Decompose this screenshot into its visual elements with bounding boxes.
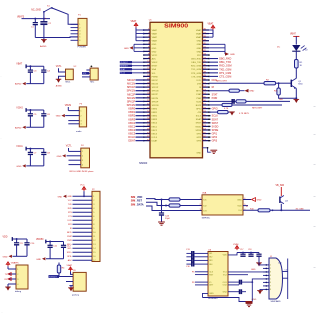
svg-text:SPK2N: SPK2N: [127, 103, 136, 107]
ground at P5: [5, 284, 11, 291]
wire cap bank bottom rail: [26, 83, 44, 85]
wire U1 right pin 46 with label: [209, 65, 232, 68]
svg-text:PWR: PWR: [212, 97, 218, 100]
svg-text:SPK1P: SPK1P: [127, 85, 136, 89]
svg-text:MIC1N: MIC1N: [127, 82, 135, 86]
IC U1 title SIM900: [139, 20, 188, 166]
resistor R9: [169, 204, 180, 207]
svg-text:DBG_RXD: DBG_RXD: [219, 58, 231, 61]
wire U6 VDD to VCC node: [228, 252, 259, 255]
svg-text:NRST: NRST: [152, 66, 158, 68]
svg-text:KBR1: KBR1: [152, 112, 158, 114]
wire U1 left pin 18 with label: [127, 89, 144, 93]
label U1 right pin 58: [212, 108, 218, 111]
label U1 right pin 65: [212, 133, 218, 136]
net label VDDEXT: [120, 61, 144, 64]
ground bars right of U1 bottom: [210, 150, 217, 153]
wire U1 left pin 25 with label: [128, 114, 143, 118]
svg-text:SRST: SRST: [196, 123, 202, 125]
label U1 right pin 62: [212, 122, 219, 125]
capacitor C16 coupling: [186, 262, 208, 267]
label P2 pin 16 SPK-: [67, 256, 72, 258]
wire cap bank bottom rail: [13, 255, 28, 257]
wire U6 GN2 through cap: [228, 289, 246, 294]
svg-text:SPK2N: SPK2N: [152, 105, 159, 107]
SIM card holder J1: [269, 256, 288, 303]
svg-text:PWRK: PWRK: [152, 76, 159, 78]
svg-text:SIM: SIM: [131, 196, 135, 199]
svg-text:RF3 & GND IN RF plane: RF3 & GND IN RF plane: [70, 171, 95, 173]
capacitor C19: [256, 253, 261, 263]
svg-text:NC_GND: NC_GND: [31, 10, 41, 12]
capacitor C3: [28, 66, 37, 83]
net label SIM_DATA: [131, 203, 144, 206]
capacitor C10: [24, 239, 35, 256]
svg-text:GND: GND: [36, 259, 41, 261]
svg-text:PWRKEY: PWRKEY: [49, 276, 58, 278]
svg-text:GND: GND: [56, 116, 61, 118]
svg-text:SCLK: SCLK: [196, 116, 202, 118]
svg-text:VCHG: VCHG: [16, 107, 23, 109]
wire VBAT bus right pins: [209, 30, 213, 37]
svg-text:SIM900: SIM900: [139, 162, 148, 165]
svg-text:DCLK: DCLK: [128, 135, 135, 139]
wire P2 pin 13: [73, 244, 97, 246]
ground AGND: [15, 126, 26, 130]
component U3: [90, 66, 98, 84]
svg-text:DBG_TXD: DBG_TXD: [219, 61, 231, 64]
wire U1 left pin 17 with label: [127, 85, 144, 89]
svg-text:NETLIGHT: NETLIGHT: [252, 107, 263, 109]
wire P3 pin3: [68, 120, 79, 122]
svg-text:KBC3: KBC3: [128, 132, 135, 136]
svg-text:VCTL: VCTL: [66, 145, 73, 147]
ground GND at P3: [56, 114, 65, 118]
svg-text:~: ~: [313, 162, 316, 167]
ground at Q1 emitter: [294, 98, 300, 103]
net label at U3 pin2: [82, 72, 90, 75]
wire cap bank bottom rail: [26, 165, 44, 167]
resistor R5: [236, 100, 246, 103]
svg-text:VDDX: VDDX: [152, 62, 158, 64]
wire P4 pin3: [69, 159, 81, 161]
svg-text:RXD_GSM: RXD_GSM: [219, 65, 231, 68]
label 4.7K: [224, 108, 229, 110]
IC U6 audio/SIM interface: [208, 250, 228, 301]
svg-text:PWR: PWR: [67, 240, 72, 242]
label audio in caps: [186, 249, 191, 268]
wire P2 pin 7: [73, 220, 96, 222]
IC U1 SIM900 body: [150, 22, 203, 158]
svg-text:C17: C17: [240, 249, 243, 251]
wire STATUS line 1: [209, 100, 236, 102]
svg-text:~: ~: [313, 224, 316, 229]
wire P5 pin 2: [5, 273, 16, 276]
svg-text:SPK+: SPK+: [67, 252, 73, 254]
capacitor C6: [41, 110, 50, 127]
svg-text:SPK2P: SPK2P: [152, 101, 159, 103]
wire U1 left pin 27 with label: [128, 121, 143, 125]
svg-text:KBC0: KBC0: [128, 121, 135, 125]
label U1 right pin 54: [212, 93, 218, 96]
ground AGND: [15, 82, 26, 86]
wire U1 left pin 19 with label: [127, 92, 143, 96]
IC U5 SIM ESD protection: [200, 192, 247, 220]
svg-text:GND: GND: [197, 48, 202, 50]
svg-text:GND: GND: [152, 44, 157, 46]
svg-text:_RST: _RST: [135, 200, 143, 203]
wire U6 pin DET: [195, 284, 208, 286]
label P2 pin 11 STAT: [67, 235, 72, 238]
label P2 pin 3 TXD: [68, 204, 72, 206]
capacitor C14 coupling: [186, 254, 208, 259]
svg-text:SPK1N: SPK1N: [152, 91, 159, 93]
label P2 pin 13 MIC+: [67, 244, 73, 246]
label U1 right pin 64: [212, 129, 219, 132]
svg-text:KBC1: KBC1: [128, 124, 135, 128]
svg-text:KBR3: KBR3: [128, 117, 135, 121]
svg-text:RXD: RXD: [68, 208, 73, 210]
transistor Q3: [280, 187, 289, 210]
svg-text:STAT: STAT: [212, 93, 218, 96]
wire P2 pin 11: [73, 236, 97, 238]
connector P6: [72, 270, 86, 296]
svg-text:audio: audio: [76, 131, 82, 133]
net label VCHG: [16, 107, 23, 109]
svg-text:DCD: DCD: [68, 220, 73, 222]
wire U5 out1 to ground flag: [243, 199, 251, 201]
svg-text:VCC: VCC: [68, 200, 73, 202]
watermark tilde marks: [0, 74, 316, 314]
svg-text:LED: LED: [279, 99, 284, 101]
svg-text:KBC0: KBC0: [152, 123, 158, 125]
wire U6 pin CLK: [192, 272, 208, 274]
wire U1 left pin 26 with label: [128, 117, 143, 121]
svg-text:BUZZ: BUZZ: [196, 105, 202, 107]
svg-text:GND: GND: [249, 91, 254, 93]
ground flag at P2 pin1: [58, 195, 67, 199]
svg-text:DCLK: DCLK: [152, 137, 158, 139]
svg-text:GPIO: GPIO: [212, 108, 218, 111]
ground AGND: [40, 40, 47, 48]
label C26 at SIM: [278, 262, 283, 264]
svg-text:SMF05C: SMF05C: [202, 218, 211, 220]
svg-text:DC: DC: [277, 46, 281, 48]
SIM holder pin wires: [263, 264, 272, 291]
wire cap bank bottom rail: [46, 258, 64, 260]
svg-text:GND: GND: [209, 293, 214, 295]
svg-text:KBC2: KBC2: [152, 130, 158, 132]
wire P5 pin 4: [8, 283, 16, 285]
wire U3 pin3: [82, 76, 90, 78]
wire U1 left pin 30 with label: [128, 132, 143, 136]
power flag VCC at P2: [80, 185, 86, 192]
svg-text:KBR0: KBR0: [128, 107, 135, 111]
wire SIM pin1 to VCC rail: [259, 256, 263, 265]
wire P2 pin 6: [73, 216, 96, 218]
svg-text:RTS_GSM: RTS_GSM: [219, 72, 231, 75]
label U1 right pin 50: [212, 79, 218, 82]
svg-text:GND: GND: [57, 156, 62, 158]
label P2 pin 17 ADC: [68, 259, 73, 262]
wire from switch to connector P1: [52, 8, 78, 24]
label U1 right pin 60: [212, 115, 219, 118]
svg-text:GPI3: GPI3: [196, 141, 202, 143]
svg-text:_VDD: _VDD: [135, 196, 143, 199]
svg-text:SPRE: SPRE: [196, 130, 202, 132]
svg-text:VDD50: VDD50: [36, 239, 44, 241]
wire P2 pin 17: [73, 260, 97, 262]
svg-text:MIC1: MIC1: [66, 82, 72, 84]
svg-text:GND: GND: [197, 51, 202, 53]
resistor R10 on rail: [250, 208, 270, 212]
wire P2 pin 15: [73, 252, 97, 254]
svg-text:GPI1: GPI1: [196, 133, 202, 135]
svg-text:DDAT: DDAT: [128, 139, 135, 143]
net label PWRKEY: [49, 275, 60, 278]
net label VBUS: [65, 105, 72, 107]
svg-text:..: ..: [0, 74, 2, 78]
svg-text:KBR2: KBR2: [152, 116, 158, 118]
svg-text:POWER: POWER: [78, 47, 87, 49]
wire U1 left pin 16 with label: [127, 82, 143, 86]
net label VBAT3: [17, 16, 25, 19]
wire U1 right pin 44 with label: [209, 58, 231, 61]
net label VBAT_SIM: [276, 185, 285, 187]
wire P2 pin 2: [73, 200, 96, 202]
wire U1 left pin 24 with label: [128, 110, 143, 114]
svg-text:KBC3: KBC3: [152, 133, 158, 135]
capacitor C9: [14, 239, 23, 256]
svg-text:MIC2N: MIC2N: [152, 98, 159, 100]
resistor R6: [222, 103, 232, 106]
ground flag right of U1: [225, 52, 235, 56]
svg-text:GPI1: GPI1: [212, 133, 218, 136]
svg-text:4.7K NETL: 4.7K NETL: [239, 113, 250, 115]
net label VBAT: [16, 63, 22, 66]
resistor R1: [295, 60, 304, 69]
svg-text:GND: GND: [67, 196, 72, 198]
net label VCTL: [56, 66, 63, 68]
wire U2 pin2: [59, 76, 66, 79]
capacitor C2 electrolytic: [40, 17, 51, 38]
resistor R2: [264, 79, 276, 85]
wire cap bottoms to ground: [35, 38, 44, 40]
wire SIM data 2b: [180, 205, 202, 207]
wire P2 pin 8: [73, 224, 96, 226]
ground GND at P4: [57, 154, 66, 158]
power flag VBAT right of U1: [208, 22, 215, 29]
wire cap bank bottom rail: [26, 126, 44, 128]
svg-text:GPI2: GPI2: [196, 137, 202, 139]
wire U1 left pin 31 with label: [128, 135, 143, 139]
svg-text:GND: GND: [257, 199, 262, 201]
svg-text:GND: GND: [3, 256, 8, 258]
svg-text:SPK1P: SPK1P: [152, 87, 159, 89]
connector P1: [71, 14, 88, 48]
net label SIM_RST: [131, 200, 143, 203]
ground at P6: [68, 288, 74, 292]
wire to R7: [209, 111, 218, 113]
wire P3 pin4: [68, 123, 79, 125]
ground flag right of U5: [252, 198, 262, 202]
wire SIM pin8 to ground: [260, 289, 263, 290]
svg-text:KBC2: KBC2: [128, 128, 135, 132]
svg-text:WM8960: WM8960: [208, 298, 218, 300]
label U1 right pin 55: [212, 97, 218, 100]
ground AGND below U2: [56, 79, 63, 87]
wire U6 pin IO: [192, 282, 208, 284]
label U1 right pin 52: [212, 86, 215, 89]
wire P4 pin1: [69, 148, 81, 151]
label P2 pin 5 RTS: [68, 212, 73, 214]
wire U1 left pin 21 with label: [127, 99, 144, 103]
svg-text:3V_SIM: 3V_SIM: [296, 209, 304, 211]
svg-text:RXD_GSM: RXD_GSM: [191, 66, 202, 68]
svg-text:KBR2: KBR2: [128, 114, 135, 118]
LED D2: [277, 45, 309, 52]
wire P2 pin 4: [73, 208, 96, 210]
power flag VBAT at LED: [290, 32, 299, 44]
capacitor C7: [28, 149, 37, 166]
svg-text:GND: GND: [196, 152, 201, 154]
wire SIM pin5 to ground rail: [252, 279, 263, 302]
capacitor C1: [31, 19, 38, 38]
wire cap bank top rail: [12, 237, 27, 241]
label P2 pin 9 RI: [70, 228, 72, 230]
capacitor C13 coupling: [186, 251, 208, 256]
wire STATUS line 1b: [246, 99, 290, 101]
wire U1 right pin 47 with label: [209, 68, 231, 71]
wire P2 pin 5: [73, 212, 96, 214]
net label VCTL2: [66, 145, 73, 147]
svg-text:GPIO: GPIO: [196, 108, 202, 110]
svg-text:SIM: SIM: [131, 203, 135, 206]
net label VCCA: [16, 145, 23, 148]
net label NRESET: [120, 65, 144, 68]
label U1 right pin 67: [212, 140, 218, 143]
svg-text:47K: 47K: [197, 112, 201, 114]
wire P6 pin3: [66, 281, 73, 283]
wire U1 left pin 22 with label: [127, 103, 144, 107]
wire U1 left pin 29 with label: [128, 128, 143, 132]
wire to R8b: [209, 90, 229, 92]
wire VBAT bus left pins 1-4: [136, 28, 144, 42]
net label SCL2: [120, 72, 144, 75]
svg-text:SPK-: SPK-: [67, 256, 72, 258]
wire STATUS line 2: [209, 104, 222, 106]
ground pad bottom: [246, 301, 253, 307]
svg-text:TXD_GSM: TXD_GSM: [219, 68, 231, 71]
label NC_GND: [31, 10, 41, 12]
svg-text:NRESET: NRESET: [120, 66, 129, 68]
wire U6 OU1 through cap: [228, 280, 253, 285]
resistor R3 base pulldown: [274, 83, 296, 98]
power flag VBAT at P5: [6, 261, 17, 269]
wire U3 pin1: [86, 69, 90, 71]
connector P2 header: [92, 189, 100, 262]
svg-text:DBG_TXD: DBG_TXD: [191, 62, 201, 64]
svg-text:VBUS: VBUS: [65, 105, 72, 107]
label U1 right pin 66: [212, 136, 218, 139]
wire P6 pin4 to ground: [69, 286, 73, 288]
wire U1 right pin 45 with label: [209, 61, 231, 64]
label P2 pin 12 PWR: [67, 240, 72, 242]
label P2 pin 7 DCD: [68, 220, 73, 222]
label P2 pin 1 GND: [67, 196, 72, 198]
svg-text:VDD: VDD: [223, 255, 228, 257]
svg-text:SIM: SIM: [131, 200, 135, 203]
svg-text:C18: C18: [248, 249, 251, 251]
svg-text:VDD: VDD: [237, 205, 242, 207]
svg-text:MIC1P: MIC1P: [152, 80, 159, 82]
wire P3 pin1: [68, 107, 79, 111]
net label SDA2: [120, 68, 144, 71]
svg-text:KBC1: KBC1: [152, 126, 158, 128]
label U1 right pin 61: [212, 118, 219, 121]
svg-text:NLIG: NLIG: [196, 101, 201, 103]
wire SIM data 1b: [180, 199, 202, 201]
wire SIM data 3: [146, 206, 202, 211]
svg-text:MIC1N: MIC1N: [152, 83, 159, 85]
wire cap bank top rail: [26, 147, 44, 151]
svg-text:TXD: TXD: [68, 204, 72, 206]
wire P2 pin 9: [73, 228, 96, 230]
svg-text:KBR0: KBR0: [152, 108, 158, 110]
wire U1 left pin 20 with label: [127, 96, 143, 100]
svg-text:SRST: SRST: [212, 122, 219, 125]
svg-text:MIC2P: MIC2P: [127, 92, 135, 96]
label P2 pin 6 CTS: [68, 216, 73, 218]
capacitor C15 coupling: [186, 258, 208, 263]
capacitor C5: [28, 110, 37, 127]
svg-text:KBR1: KBR1: [128, 110, 135, 114]
U1 left pin stubs and numbers: [143, 29, 159, 143]
switch S1: [43, 5, 53, 12]
svg-text:4.7K: 4.7K: [224, 108, 229, 110]
ground flag after R7: [228, 112, 250, 116]
wire P4 pin2 to ground: [67, 155, 81, 157]
power flag VBAT at P6: [67, 264, 74, 274]
wire GND bus right pins: [209, 44, 225, 54]
label P2 pin 14 MIC-: [68, 248, 73, 250]
wire U6 pin RST: [195, 274, 208, 276]
wire SIM_VDD rail: [243, 209, 310, 211]
svg-text:RI: RI: [212, 86, 215, 89]
svg-text:DBG_RXD: DBG_RXD: [191, 58, 202, 60]
svg-text:VCC: VCC: [80, 185, 85, 187]
svg-text:GND: GND: [230, 54, 235, 56]
svg-text:MIC2N: MIC2N: [127, 96, 135, 100]
ground flag after R8b: [239, 89, 254, 93]
wire U5 out2 stub: [243, 205, 248, 207]
wire P5 pin 3: [5, 278, 16, 281]
wire U1 bottom right to ground: [196, 147, 210, 154]
note RF ground plane: [70, 171, 95, 173]
svg-text:..: ..: [0, 136, 2, 140]
svg-text:_DATA: _DATA: [135, 203, 144, 206]
wire STATUS line 2b: [232, 105, 282, 109]
wire SIM data 2: [146, 202, 169, 206]
svg-text:MIC2P: MIC2P: [152, 94, 159, 96]
svg-text:GND: GND: [124, 48, 129, 50]
net label VDD: [3, 236, 8, 238]
wire U6 pin GND loop: [203, 293, 209, 297]
svg-text:GND: GND: [252, 299, 257, 301]
label P2 pin 10 NETL: [67, 232, 73, 234]
label P2 pin 2 VCC: [68, 200, 73, 202]
wire GND rail to P1 pin5: [44, 36, 78, 39]
